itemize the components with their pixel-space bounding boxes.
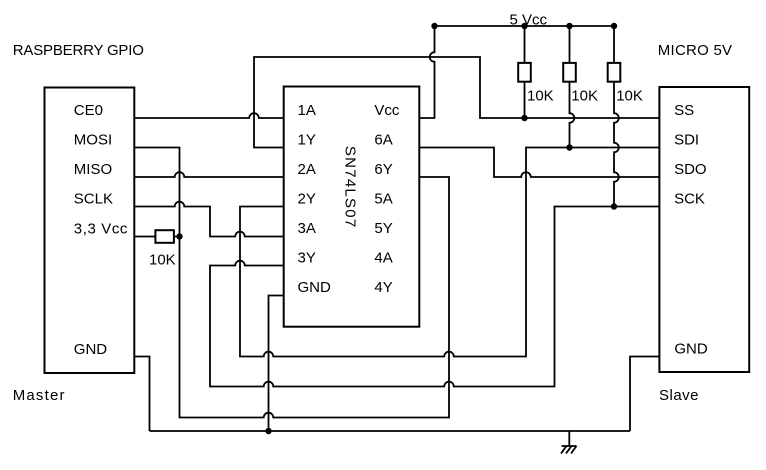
svg-text:RASPBERRY GPIO: RASPBERRY GPIO xyxy=(13,42,144,59)
ground bus wire xyxy=(150,430,631,432)
junction node R1 / SS xyxy=(521,115,527,121)
svg-text:MISO: MISO xyxy=(74,161,112,178)
svg-text:SCLK: SCLK xyxy=(74,191,113,208)
svg-text:4A: 4A xyxy=(374,250,392,267)
svg-text:1A: 1A xyxy=(298,102,316,119)
pin 4A label xyxy=(374,250,392,267)
pin MISO label xyxy=(74,161,112,178)
wire IC GND down to ground bus xyxy=(269,296,284,432)
IC U1 SN74LS07 box xyxy=(284,87,420,327)
pin SCLK label xyxy=(74,191,113,208)
junction node MOSI/R4 xyxy=(176,233,182,239)
power rail 5V xyxy=(435,25,615,27)
wire 2Y to SDI (hops at 268.5 and 449 on y=356.5) xyxy=(240,148,659,357)
label Master xyxy=(13,387,66,404)
pin 5Y label xyxy=(374,220,392,237)
pin 5A label xyxy=(374,191,392,208)
pin GND label (slave) xyxy=(674,341,708,358)
junction node rail / R3 xyxy=(611,23,617,29)
svg-text:10K: 10K xyxy=(616,88,643,105)
junction node rail / R1 xyxy=(521,23,527,29)
junction node R3 / SCK xyxy=(611,203,617,209)
svg-text:3Y: 3Y xyxy=(298,250,316,267)
IC U1 name SN74LS07 xyxy=(342,146,359,229)
svg-text:MICRO 5V: MICRO 5V xyxy=(658,42,733,59)
label 10K (R2) xyxy=(571,88,598,105)
svg-text:CE0: CE0 xyxy=(74,102,103,119)
pin 2A label xyxy=(298,161,316,178)
resistor R3 10K pullup SCK xyxy=(608,26,621,207)
pin GND label (master) xyxy=(74,341,108,358)
pin MOSI label xyxy=(74,132,112,149)
pin SCK label xyxy=(674,191,705,208)
svg-text:3,3 Vcc: 3,3 Vcc xyxy=(74,220,128,237)
slave box MICRO 5V xyxy=(659,87,749,372)
pin SDI label xyxy=(674,132,699,149)
label MICRO 5V xyxy=(658,42,733,59)
pin 6Y label xyxy=(374,161,392,178)
junction node rail / Vcc xyxy=(431,23,437,29)
pin 3,3 Vcc label xyxy=(74,220,128,237)
pin 4Y label xyxy=(374,279,392,296)
wire master GND to ground bus xyxy=(134,357,149,432)
svg-text:2A: 2A xyxy=(298,161,316,178)
svg-text:SN74LS07: SN74LS07 xyxy=(342,146,359,229)
wire 1Y to SS xyxy=(254,57,659,148)
wire 3,3 Vcc to resistor R4 xyxy=(134,236,179,238)
svg-text:GND: GND xyxy=(674,341,708,358)
svg-text:SS: SS xyxy=(674,102,694,119)
svg-text:Slave: Slave xyxy=(659,387,699,404)
pin 3A label xyxy=(298,220,316,237)
junction node ground bus / IC GND xyxy=(265,428,271,434)
svg-text:SDI: SDI xyxy=(674,132,699,149)
pin 2Y label xyxy=(298,191,316,208)
wire MISO to 2A (hop at x=179.5) xyxy=(134,172,283,177)
ground symbol xyxy=(561,431,577,454)
pin GND label (IC) xyxy=(298,279,332,296)
wire Vcc pin to rail (hop at y=57) xyxy=(419,26,434,118)
svg-text:1Y: 1Y xyxy=(298,132,316,149)
resistor R1 10K pullup SS xyxy=(518,26,531,118)
svg-text:3A: 3A xyxy=(298,220,316,237)
label 10K (R1) xyxy=(527,88,554,105)
junction node R2 / SDI xyxy=(566,144,572,150)
svg-text:6A: 6A xyxy=(374,132,392,149)
label RASPBERRY GPIO xyxy=(13,42,144,59)
label 5 Vcc xyxy=(510,11,548,28)
svg-text:5A: 5A xyxy=(374,191,392,208)
svg-text:10K: 10K xyxy=(149,252,176,269)
svg-text:2Y: 2Y xyxy=(298,191,316,208)
wire 3Y to SCK (hops at 240, 268.5, 449) xyxy=(210,207,659,387)
pin 1A label xyxy=(298,102,316,119)
wire SCLK to 3A (hops at x=179.5, x=240) xyxy=(134,202,283,237)
label Slave xyxy=(659,387,699,404)
resistor R4 10K pullup MOSI xyxy=(155,230,174,243)
svg-text:GND: GND xyxy=(74,341,108,358)
svg-text:5Y: 5Y xyxy=(374,220,392,237)
pin 3Y label xyxy=(298,250,316,267)
wire slave GND riser xyxy=(630,357,659,432)
svg-text:Master: Master xyxy=(13,387,66,404)
pin 1Y label xyxy=(298,132,316,149)
wire SDO to 6A (hop at x=526) xyxy=(419,148,659,178)
wire MOSI to 6Y via bottom (hop at x=268.5 on y=417.5) xyxy=(134,148,449,418)
pin Vcc label xyxy=(374,102,400,119)
svg-text:SCK: SCK xyxy=(674,191,705,208)
label 10K (R4) xyxy=(149,252,176,269)
wire CE0 to 1A (hop at x=254) xyxy=(134,113,283,118)
pin CE0 label xyxy=(74,102,103,119)
svg-text:MOSI: MOSI xyxy=(74,132,112,149)
svg-text:4Y: 4Y xyxy=(374,279,392,296)
svg-text:Vcc: Vcc xyxy=(374,102,400,119)
junction node rail / R2 xyxy=(566,23,572,29)
svg-text:10K: 10K xyxy=(571,88,598,105)
resistor R2 10K pullup SDI xyxy=(563,26,576,148)
pin SDO label xyxy=(674,161,707,178)
svg-text:GND: GND xyxy=(298,279,332,296)
svg-text:6Y: 6Y xyxy=(374,161,392,178)
svg-text:SDO: SDO xyxy=(674,161,707,178)
master box RASPBERRY GPIO xyxy=(45,88,135,374)
pin SS label xyxy=(674,102,694,119)
svg-text:10K: 10K xyxy=(527,88,554,105)
label 10K (R3) xyxy=(616,88,643,105)
pin 6A label xyxy=(374,132,392,149)
